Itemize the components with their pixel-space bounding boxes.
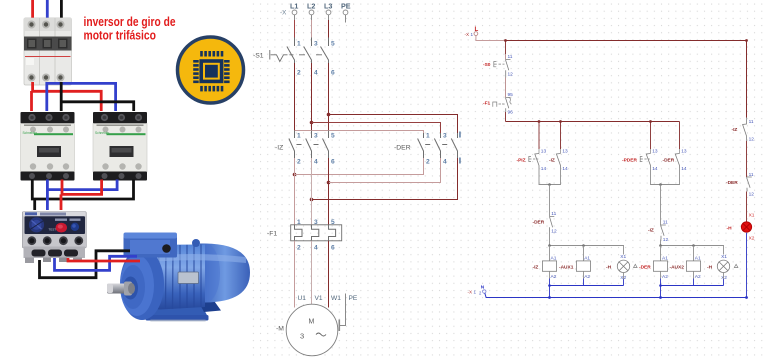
- toggle band: [24, 37, 72, 51]
- svg-text:PE: PE: [341, 2, 351, 11]
- PDER NO contact: [646, 154, 650, 169]
- svg-text:4: 4: [314, 70, 318, 77]
- chip pins bottom: [200, 86, 203, 92]
- svg-text:4: 4: [314, 159, 318, 166]
- svg-text:14: 14: [652, 166, 658, 172]
- wire to PIZ: [538, 122, 540, 150]
- wire S1.2 down to IZ: [294, 63, 296, 131]
- motor circle: [286, 304, 338, 356]
- wire join down to IZ interlock: [660, 185, 662, 226]
- wire L2 to S1: [311, 15, 313, 46]
- node rung PDER: [649, 120, 652, 123]
- svg-text:2: 2: [297, 245, 301, 252]
- lower slot strip: [24, 247, 86, 259]
- svg-text:L1: L1: [290, 2, 298, 11]
- PIZ actuator: [529, 157, 539, 162]
- chip body: [199, 59, 223, 83]
- svg-text:motor trifásico: motor trifásico: [84, 29, 157, 43]
- svg-text:1: 1: [426, 133, 430, 140]
- svg-text:14: 14: [562, 166, 568, 172]
- contactor to relay wires: red: [62, 180, 102, 195]
- blue button: [71, 223, 79, 231]
- coil1 pin A2: [549, 271, 551, 278]
- svg-text:-S1: -S1: [253, 53, 264, 60]
- node N bus left: [548, 296, 551, 299]
- svg-text:V1: V1: [315, 295, 323, 302]
- svg-text:95: 95: [508, 92, 514, 98]
- svg-text:X2: X2: [749, 236, 755, 242]
- svg-text:-S0: -S0: [483, 62, 491, 68]
- wire sub-bus to N bus left: [549, 286, 551, 298]
- svg-text:-X: -X: [280, 10, 287, 17]
- svg-text:-IZ: -IZ: [549, 158, 555, 164]
- F1 pole 3 detour: [329, 225, 336, 241]
- svg-text:11: 11: [749, 172, 754, 178]
- svg-text:-IZ: -IZ: [648, 228, 654, 234]
- svg-text:-IZ: -IZ: [533, 264, 539, 270]
- F1 actuator squiggle: [493, 102, 505, 107]
- switch S1 pole 3: [321, 38, 329, 64]
- lamp H1: [617, 260, 629, 272]
- contactor DER pole 1: [418, 133, 424, 158]
- body lower: [25, 56, 71, 58]
- F1 pole 2 detour: [312, 225, 319, 241]
- DER linkage dashes: [425, 144, 447, 146]
- dotted grid background of schematic panels: [251, 0, 768, 358]
- svg-text:3: 3: [314, 219, 318, 226]
- svg-text:A2: A2: [584, 274, 590, 280]
- terminal PE: [343, 10, 348, 15]
- switch S1 pole 1: [287, 38, 295, 64]
- coil -DER: [653, 261, 667, 271]
- svg-text:13: 13: [562, 149, 568, 155]
- chip pins left: [193, 60, 199, 63]
- relay to motor wires: blue: [55, 256, 138, 270]
- N sub-bus left group: [550, 285, 624, 287]
- node coil4: [692, 244, 695, 247]
- wire DER.6 return to wire2: [312, 158, 458, 200]
- svg-text:12: 12: [749, 192, 755, 198]
- feet: [147, 304, 209, 317]
- svg-text:3: 3: [300, 332, 304, 341]
- svg-text:13: 13: [652, 149, 658, 155]
- wire DER.2 return to wire1: [295, 158, 424, 175]
- svg-text:-F1: -F1: [483, 101, 491, 107]
- top screws: [28, 21, 36, 29]
- svg-text:-DER: -DER: [394, 145, 411, 152]
- DER seal NO contact: [675, 154, 679, 169]
- F1 outer box: [291, 225, 342, 241]
- relay to motor wires: red: [68, 258, 140, 261]
- svg-text:1: 1: [297, 41, 301, 48]
- S0 actuator: [494, 62, 505, 67]
- node sub-bus left: [548, 284, 551, 287]
- svg-text:-DER: -DER: [663, 158, 675, 164]
- svg-text:X2: X2: [721, 275, 727, 281]
- node coil3: [659, 244, 662, 247]
- N sub-bus right group: [661, 285, 724, 287]
- S1 pin numbers: [297, 41, 335, 77]
- wire F1.4 to motor V1: [311, 241, 313, 305]
- node bus corner: [745, 39, 748, 42]
- svg-text:5: 5: [331, 219, 335, 226]
- node wire2 return: [310, 198, 314, 202]
- svg-text:12: 12: [663, 237, 669, 243]
- chip pins top: [193, 51, 229, 91]
- supply wires into breaker: [31, 0, 34, 22]
- switch S1 handle: [270, 50, 288, 62]
- wire F1.2 to motor U1: [294, 241, 296, 308]
- node N bus right: [659, 296, 662, 299]
- node L3 branch: [327, 113, 331, 117]
- DER pin numbers: [426, 133, 447, 166]
- wire S1.4 down to IZ: [311, 63, 313, 131]
- breaker to contactor wires: blue: [45, 82, 48, 111]
- svg-text:3: 3: [443, 133, 447, 140]
- motor terminal labels: [298, 295, 358, 302]
- coil2 pin A2: [583, 271, 585, 278]
- wire L1 to S1: [294, 15, 296, 46]
- wire L1 crossover to DER pole1: [295, 131, 424, 134]
- logo badge: [178, 37, 244, 103]
- L bus top: [506, 41, 747, 118]
- node join right rung: [659, 183, 662, 186]
- breaker to contactor wires: red: [33, 82, 102, 111]
- IZ seal NO contact: [556, 154, 560, 169]
- svg-text:4: 4: [443, 159, 447, 166]
- join PDER/DER bottoms: [651, 168, 680, 185]
- svg-text:-X: -X: [468, 290, 473, 295]
- coil2 pin A1: [583, 246, 585, 261]
- coil row bus left: [550, 246, 624, 255]
- svg-text:X1: X1: [620, 254, 626, 260]
- svg-text:-AUX2: -AUX2: [670, 264, 685, 270]
- delta mark lamp1: [634, 264, 638, 267]
- coil1 pin A1: [549, 246, 551, 261]
- delta mark lamp2: [734, 264, 738, 267]
- terminal box: [124, 236, 178, 258]
- lamp H2: [717, 260, 729, 272]
- PDER actuator: [640, 157, 650, 162]
- svg-text:TEST: TEST: [49, 228, 57, 232]
- dark control panel: [25, 216, 86, 234]
- svg-text:A2: A2: [662, 274, 668, 280]
- svg-text:12: 12: [551, 229, 557, 235]
- svg-text:1: 1: [297, 219, 301, 226]
- svg-text:-AUX1: -AUX1: [559, 264, 574, 270]
- S0 NC contact: [506, 60, 511, 78]
- coil4 pin A1: [693, 246, 695, 261]
- breaker to contactor wires: black: [60, 82, 63, 111]
- switch S1 pole 2: [304, 38, 312, 64]
- nameplate: [178, 272, 199, 284]
- F1 pole 1 detour: [295, 225, 303, 241]
- lifting eye: [192, 239, 200, 247]
- svg-text:1: 1: [297, 133, 301, 140]
- svg-text:L3: L3: [324, 2, 332, 11]
- svg-text:6: 6: [331, 70, 335, 77]
- node rung IZ seal: [559, 120, 562, 123]
- svg-text:-IZ: -IZ: [732, 127, 738, 133]
- relay to motor wires: black: [40, 251, 131, 278]
- contactor to relay wires: blue: [47, 180, 117, 190]
- far right IZ contact: [743, 118, 747, 142]
- coil4 pin A2: [693, 271, 695, 278]
- IZ linkage dashes: [297, 144, 319, 146]
- svg-text:96: 96: [508, 110, 514, 116]
- PE wire to motor frame: [340, 294, 346, 326]
- svg-text:13: 13: [541, 149, 547, 155]
- svg-text:6: 6: [331, 245, 335, 252]
- svg-text:4: 4: [314, 245, 318, 252]
- wire to DER seal: [679, 122, 681, 150]
- terminal screws row: [27, 236, 36, 245]
- svg-text:-DER: -DER: [639, 264, 651, 270]
- svg-text:inversor de giro de: inversor de giro de: [84, 15, 176, 29]
- IZ pin numbers: [297, 133, 335, 166]
- switch S1 linkage dashes: [290, 54, 323, 56]
- svg-text:5: 5: [331, 133, 335, 140]
- svg-text:-DER: -DER: [726, 180, 738, 186]
- svg-text:11: 11: [749, 119, 754, 125]
- svg-text:14: 14: [681, 166, 687, 172]
- svg-text:2: 2: [297, 70, 301, 77]
- wire to IZ seal: [560, 122, 562, 150]
- svg-text:L2: L2: [307, 2, 315, 11]
- IZ NC interlock contact: [661, 225, 666, 240]
- node coil1: [548, 244, 551, 247]
- svg-text:12: 12: [508, 72, 514, 78]
- main body: [138, 245, 205, 310]
- wire down to red lamp: [746, 192, 748, 222]
- svg-text:-DER: -DER: [533, 220, 545, 226]
- rear cap: [200, 244, 250, 303]
- contactor K2: [93, 112, 147, 181]
- thermal overload relay: [22, 212, 86, 264]
- wire red lamp to N bus: [746, 233, 748, 298]
- join PIZ/IZ bottoms: [539, 168, 561, 185]
- svg-text:X1: X1: [721, 254, 727, 260]
- bottom tabs: [25, 258, 34, 264]
- coil3 pin A2: [660, 271, 662, 278]
- svg-text:-IZ: -IZ: [275, 145, 283, 152]
- svg-text:2: 2: [426, 159, 430, 166]
- svg-text:A2: A2: [551, 274, 557, 280]
- wire to PDER: [650, 122, 652, 150]
- svg-text:PE: PE: [349, 295, 358, 302]
- svg-text:11: 11: [663, 220, 668, 226]
- node wire1 return: [293, 173, 297, 177]
- svg-text:A1: A1: [551, 255, 557, 261]
- body fins: [151, 245, 201, 309]
- circuit breaker: [24, 18, 72, 85]
- bottom screws: [28, 74, 36, 82]
- labels row on panel: [55, 219, 67, 221]
- contactor DER pole 2: [434, 133, 440, 158]
- wire F1.6 to motor W1: [328, 241, 330, 308]
- dial: [29, 217, 44, 232]
- wire IZ.6 down to F1: [328, 158, 330, 225]
- node coil2: [582, 244, 585, 247]
- svg-text:A1: A1: [695, 255, 701, 261]
- chip pins right: [224, 60, 230, 63]
- svg-text:-PIZ: -PIZ: [517, 158, 526, 164]
- coil -AUX1: [576, 261, 590, 271]
- contactor IZ pole 3: [323, 131, 329, 159]
- wire IZ.2 down to F1: [294, 158, 296, 225]
- highlight stripe: [140, 254, 246, 263]
- far right DER NC contact: [747, 177, 752, 192]
- svg-text:U1: U1: [298, 295, 307, 302]
- wire L3 to S1: [328, 15, 330, 46]
- DER NC interlock contact: [550, 217, 555, 232]
- svg-text:A1: A1: [584, 255, 590, 261]
- terminal L3: [326, 10, 331, 15]
- red lamp: [741, 222, 751, 232]
- coil3 pin A1: [660, 246, 662, 261]
- svg-text:-X: -X: [465, 32, 470, 37]
- contactor to relay wires: black: [32, 180, 133, 200]
- svg-text:1: 1: [471, 32, 474, 37]
- svg-text:6: 6: [331, 159, 335, 166]
- wire down to DER NC: [746, 141, 748, 177]
- lamp2 pin X2: [723, 273, 725, 280]
- svg-text:2: 2: [297, 159, 301, 166]
- terminal L2: [309, 10, 314, 15]
- wire to coil row left: [549, 232, 551, 246]
- svg-text:W1: W1: [331, 295, 341, 302]
- svg-text:-F1: -F1: [267, 231, 277, 238]
- contactor IZ pole 2: [306, 131, 312, 159]
- PE stub wire: [345, 15, 347, 23]
- svg-text:X1: X1: [749, 213, 755, 219]
- svg-text:11: 11: [508, 54, 513, 60]
- F1 NC contact: [506, 98, 511, 113]
- svg-text:13: 13: [681, 149, 687, 155]
- node bus S0: [504, 39, 507, 42]
- svg-text:-PDER: -PDER: [622, 158, 637, 164]
- motor: [107, 233, 250, 322]
- svg-text:A1: A1: [662, 255, 668, 261]
- PIZ NO contact: [535, 154, 539, 169]
- shaft: [107, 284, 131, 294]
- wire L2 crossover to DER pole3: [312, 123, 441, 134]
- node wire3 return: [327, 181, 331, 185]
- svg-text:3: 3: [314, 41, 318, 48]
- node rung PIZ: [538, 120, 541, 123]
- svg-text:14: 14: [541, 166, 547, 172]
- F1 pin numbers: [297, 219, 335, 252]
- rung bus horizontal: [506, 121, 680, 123]
- svg-text:M: M: [309, 319, 315, 326]
- contactor DER pole 3: [451, 133, 457, 158]
- wire DER.4 return to wire3: [329, 158, 441, 183]
- svg-text:5: 5: [331, 41, 335, 48]
- N bus bottom: [485, 293, 747, 298]
- wire S0 to F1: [505, 78, 507, 98]
- lamp1 pin X2: [623, 273, 625, 280]
- wire L3 crossover to DER pole5: [329, 115, 458, 134]
- svg-text:-H: -H: [707, 264, 713, 270]
- wire join down to DER interlock: [549, 185, 551, 217]
- svg-text:11: 11: [551, 211, 556, 217]
- svg-text:3: 3: [314, 133, 318, 140]
- node sub-bus right: [659, 284, 662, 287]
- terminal strip -X labels L1 L2 L3 PE: [290, 2, 351, 11]
- svg-text:-H: -H: [606, 264, 612, 270]
- contactor IZ pole 1: [289, 131, 295, 159]
- svg-text:12: 12: [749, 137, 755, 143]
- svg-text:A2: A2: [695, 274, 701, 280]
- node N bus corner: [745, 296, 748, 299]
- red button: [56, 223, 67, 233]
- coil row bus right: [661, 246, 724, 255]
- wire L down corner: [476, 36, 506, 41]
- wire S1.6 down to IZ: [328, 63, 330, 131]
- wire bus to S0: [505, 41, 507, 55]
- svg-text:1: 1: [474, 290, 477, 295]
- contactor K1: [21, 112, 75, 181]
- node L2 branch: [310, 121, 314, 125]
- wire to coil row right: [660, 240, 662, 246]
- svg-text:-M: -M: [276, 326, 284, 333]
- wire IZ.4 down to F1: [311, 158, 313, 225]
- front bell: [120, 248, 164, 320]
- motor frame PE bar: [338, 320, 340, 332]
- svg-text:-H: -H: [727, 226, 733, 232]
- coil -IZ: [542, 261, 556, 271]
- wire F1 down to rung bus: [505, 112, 507, 122]
- node join left rung: [548, 183, 551, 186]
- wire sub-bus to N bus right: [660, 286, 662, 298]
- coil -AUX2: [686, 261, 700, 271]
- terminal L1: [292, 10, 297, 15]
